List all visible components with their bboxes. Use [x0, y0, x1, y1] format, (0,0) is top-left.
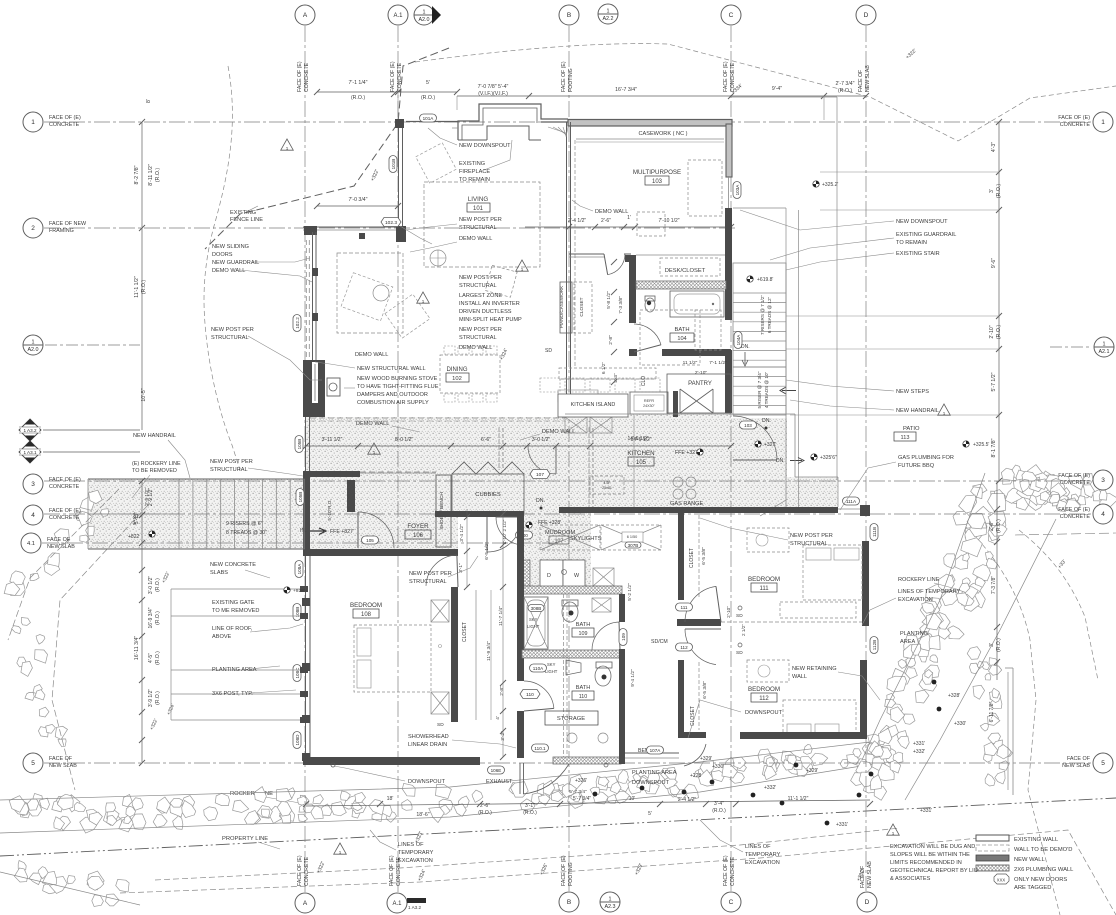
- svg-text:DRIVEN DUCTLESS: DRIVEN DUCTLESS: [459, 309, 512, 315]
- svg-text:STRUCTURAL: STRUCTURAL: [211, 335, 249, 341]
- svg-text:3'-1": 3'-1": [525, 803, 535, 809]
- legend door tag: [994, 874, 1009, 884]
- svg-text:(R.O.): (R.O.): [155, 611, 161, 625]
- svg-text:CLOSET: CLOSET: [579, 297, 585, 316]
- detail ref 1/A2.1 right: [1094, 337, 1114, 357]
- foyer top wall: [304, 471, 360, 477]
- svg-text:BATH: BATH: [674, 327, 689, 333]
- svg-text:8'-0 1/2": 8'-0 1/2": [395, 437, 414, 443]
- grid bubble C top: [721, 5, 741, 25]
- svg-text:4 TREADS @ 10": 4 TREADS @ 10": [764, 371, 769, 408]
- south wall storage hatch: [553, 757, 621, 764]
- grid bubble A bottom: [295, 893, 315, 913]
- svg-text:6 1/2": 6 1/2": [601, 362, 606, 374]
- svg-text:STRUCTURAL: STRUCTURAL: [459, 225, 497, 231]
- svg-text:6 1/50: 6 1/50: [627, 535, 638, 539]
- svg-text:(R.O.): (R.O.): [996, 184, 1002, 198]
- svg-text:1: 1: [892, 831, 895, 836]
- svg-text:PLANTING AREA: PLANTING AREA: [212, 667, 257, 673]
- svg-text:109: 109: [579, 631, 588, 637]
- svg-text:DEMO WALL: DEMO WALL: [356, 421, 389, 427]
- svg-text:111B: 111B: [872, 527, 877, 537]
- svg-text:FFE +327': FFE +327': [675, 450, 699, 456]
- svg-text:102: 102: [452, 376, 462, 382]
- pantry doors X: [680, 389, 713, 413]
- bath110 toilet: [595, 666, 611, 686]
- svg-text:FACE OF (E): FACE OF (E): [561, 855, 567, 886]
- svg-text:C: C: [729, 899, 734, 906]
- svg-text:TO REMAIN: TO REMAIN: [459, 177, 490, 183]
- svg-text:2'-10": 2'-10": [695, 370, 708, 376]
- svg-text:108D: 108D: [295, 734, 300, 746]
- piano casework: [560, 282, 572, 333]
- svg-text:TO HAVE TIGHT-FITTING FLUE: TO HAVE TIGHT-FITTING FLUE: [357, 384, 439, 390]
- svg-text:NEW SLIDING: NEW SLIDING: [212, 244, 249, 250]
- svg-text:CUBBIES: CUBBIES: [475, 492, 501, 498]
- svg-text:EXISTING: EXISTING: [230, 210, 256, 216]
- grid bubble 3 right: [1093, 470, 1113, 490]
- svg-text:5': 5': [648, 811, 652, 817]
- svg-text:CLO: CLO: [641, 376, 647, 386]
- svg-text:XXX: XXX: [997, 878, 1006, 883]
- svg-text:+332': +332': [913, 749, 925, 755]
- svg-text:2'-6": 2'-6": [480, 803, 490, 809]
- fixtures circles: [567, 733, 577, 743]
- dimension line top: [317, 91, 457, 93]
- dimension column left upper: [141, 122, 143, 228]
- svg-text:110A: 110A: [533, 666, 544, 671]
- svg-text:NEW DOWNSPOUT: NEW DOWNSPOUT: [459, 143, 511, 149]
- stove structural wall: [303, 360, 325, 417]
- svg-text:3'-0 1/2": 3'-0 1/2": [532, 437, 551, 443]
- svg-text:NEW DOWNSPOUT: NEW DOWNSPOUT: [896, 219, 948, 225]
- grid line D: [865, 26, 867, 891]
- svg-text:SHOWERHEAD: SHOWERHEAD: [408, 734, 449, 740]
- svg-text:7'-0 3/4": 7'-0 3/4": [349, 197, 368, 203]
- svg-text:B: B: [567, 12, 571, 19]
- svg-text:101B: 101B: [391, 159, 396, 170]
- svg-text:(R.O.): (R.O.): [996, 325, 1002, 339]
- svg-text:LIGHT: LIGHT: [545, 669, 558, 674]
- svg-text:D: D: [547, 573, 551, 579]
- bath109 tub with skylight: [524, 597, 548, 649]
- svg-text:(R.O.): (R.O.): [155, 168, 161, 182]
- washer dryer: [522, 560, 530, 588]
- svg-text:NEW SLAB: NEW SLAB: [867, 861, 873, 888]
- svg-text:6'-11 7/8": 6'-11 7/8": [989, 701, 995, 722]
- svg-text:CLOSET: CLOSET: [689, 548, 695, 568]
- svg-text:A2.0: A2.0: [418, 17, 429, 23]
- svg-text:8'-1 7/8": 8'-1 7/8": [991, 438, 997, 457]
- svg-text:NEW SLAB: NEW SLAB: [1062, 763, 1090, 769]
- svg-text:FUTURE BBQ: FUTURE BBQ: [898, 463, 935, 469]
- svg-text:LINES OF: LINES OF: [398, 842, 424, 848]
- svg-text:2'-8": 2'-8": [608, 335, 614, 345]
- svg-text:FACE OF: FACE OF: [49, 756, 73, 762]
- svg-text:A.1: A.1: [393, 13, 403, 19]
- svg-text:9'-4": 9'-4": [772, 86, 782, 92]
- svg-text:7'-1 1/4": 7'-1 1/4": [349, 80, 368, 86]
- svg-text:ARE TAGGED: ARE TAGGED: [1014, 885, 1051, 891]
- svg-text:111A: 111A: [846, 499, 857, 504]
- grid bubble C bottom: [721, 892, 741, 912]
- svg-text:FACE OF (E): FACE OF (E): [49, 477, 81, 483]
- svg-text:TO ME REMOVED: TO ME REMOVED: [212, 608, 259, 614]
- svg-text:EXHAUST: EXHAUST: [486, 779, 513, 785]
- grid bubble 1 right: [1093, 112, 1113, 132]
- foyer interior wall stub: [347, 480, 355, 512]
- legend demo wall: [976, 845, 1009, 851]
- dimension column right: [998, 122, 1000, 481]
- svg-text:FACE OF (E): FACE OF (E): [1058, 115, 1090, 121]
- grid line C: [730, 26, 732, 891]
- bench: [625, 752, 679, 754]
- bedroom108 bed: [354, 625, 431, 692]
- svg-text:4'-3": 4'-3": [991, 142, 997, 152]
- svg-text:ONLY NEW DOORS: ONLY NEW DOORS: [1014, 877, 1067, 883]
- svg-text:LIGHT: LIGHT: [527, 624, 540, 629]
- svg-text:FACE OF: FACE OF: [860, 866, 866, 888]
- svg-text:3'-9 1/2": 3'-9 1/2": [148, 689, 154, 708]
- svg-text:108: 108: [361, 612, 372, 618]
- grid bubble 2 left: [23, 218, 43, 238]
- svg-text:CONCRETE: CONCRETE: [1060, 480, 1091, 486]
- post A.1 x grid1: [395, 119, 404, 128]
- svg-text:EXCAVATION: EXCAVATION: [898, 597, 933, 603]
- svg-text:DOWNSPOUT: DOWNSPOUT: [632, 780, 670, 786]
- svg-text:LINE OF ROOF,: LINE OF ROOF,: [212, 626, 253, 632]
- svg-text:FRAMING: FRAMING: [49, 228, 74, 234]
- svg-text:111: 111: [681, 605, 688, 610]
- svg-text:+330': +330': [712, 764, 724, 770]
- svg-text:NEW WALL: NEW WALL: [1014, 857, 1045, 863]
- stair walk edges left: [87, 479, 89, 549]
- svg-text:EXCAVATION WILL BE DUG AND: EXCAVATION WILL BE DUG AND: [890, 844, 975, 850]
- svg-text:105: 105: [366, 538, 374, 543]
- svg-text:2'-8": 2'-8": [499, 686, 505, 696]
- closet108 wall: [451, 587, 458, 722]
- svg-text:CASEWORK ( NC ): CASEWORK ( NC ): [638, 131, 687, 137]
- rockery bottom band: [287, 788, 295, 798]
- grid bubble B top: [559, 5, 579, 25]
- svg-text:FACE OF (E): FACE OF (E): [723, 61, 729, 92]
- svg-text:MINI-SPLIT HEAT PUMP: MINI-SPLIT HEAT PUMP: [459, 317, 522, 323]
- svg-text:DEMO WALL: DEMO WALL: [542, 429, 575, 435]
- svg-text:FACE OF (E): FACE OF (E): [389, 855, 395, 886]
- svg-text:NEW GUARDRAIL: NEW GUARDRAIL: [212, 260, 259, 266]
- new wall C mid: [725, 208, 732, 320]
- svg-text:3'-4 1/2": 3'-4 1/2": [459, 524, 465, 542]
- svg-text:CONCRETE: CONCRETE: [397, 62, 403, 92]
- svg-text:A: A: [303, 900, 308, 907]
- svg-text:NEW CONCRETE: NEW CONCRETE: [210, 562, 256, 568]
- svg-text:CONCRETE: CONCRETE: [49, 515, 80, 521]
- svg-text:6'-5 3/8": 6'-5 3/8": [702, 681, 708, 699]
- svg-text:GEOTECHNICAL REPORT BY LIU: GEOTECHNICAL REPORT BY LIU: [890, 868, 978, 874]
- svg-text:5'-7 3/4": 5'-7 3/4": [573, 796, 592, 802]
- svg-text:MULTIPURPOSE: MULTIPURPOSE: [633, 169, 681, 176]
- svg-text:FACE OF (E): FACE OF (E): [1058, 507, 1090, 513]
- svg-text:CONCRETE: CONCRETE: [49, 122, 80, 128]
- grid bubble A.1 top: [388, 5, 408, 25]
- rockery top right corner: [1016, 470, 1031, 486]
- svg-text:102.2: 102.2: [295, 317, 300, 329]
- svg-text:+822: +822: [128, 534, 139, 540]
- svg-text:EXISTING GATE: EXISTING GATE: [212, 600, 255, 606]
- svg-text:DOWNSPOUT: DOWNSPOUT: [745, 710, 783, 716]
- grid line 2: [44, 227, 735, 229]
- multipurpose north wall: [568, 120, 732, 127]
- svg-text:5'-8 1/2": 5'-8 1/2": [606, 291, 612, 309]
- svg-text:3: 3: [31, 481, 35, 488]
- detail ref 1/A2.0 left: [23, 335, 43, 355]
- svg-text:& ASSOCIATES: & ASSOCIATES: [890, 876, 931, 882]
- svg-text:103: 103: [744, 423, 752, 428]
- svg-text:DN.: DN.: [762, 418, 771, 424]
- svg-text:EXCAVATION: EXCAVATION: [398, 858, 433, 864]
- svg-text:4.1: 4.1: [27, 541, 35, 547]
- svg-text:CONCRETE: CONCRETE: [730, 856, 736, 886]
- svg-text:NEW WOOD BURNING STOVE: NEW WOOD BURNING STOVE: [357, 376, 438, 382]
- skylights x-boxes: [540, 525, 600, 550]
- svg-text:DN.: DN.: [741, 344, 750, 350]
- post A x grid2: [304, 226, 317, 235]
- svg-text:NEW POST PER: NEW POST PER: [211, 327, 254, 333]
- west wall below stove: [305, 417, 307, 471]
- svg-text:NEW SLAB: NEW SLAB: [865, 65, 871, 92]
- svg-text:ROCKERY LINE: ROCKERY LINE: [898, 577, 940, 583]
- oval 101A: [420, 114, 437, 122]
- svg-text:3'-1": 3'-1": [458, 563, 464, 573]
- bedroom111 east wall: [862, 541, 869, 626]
- grid bubble 4 right: [1093, 504, 1113, 524]
- svg-text:ABOVE: ABOVE: [212, 634, 232, 640]
- svg-text:BEDROOM: BEDROOM: [748, 686, 780, 693]
- bath wall west: [517, 513, 524, 681]
- svg-text:TO BE REMOVED: TO BE REMOVED: [132, 468, 177, 474]
- grid bubble 5 right: [1093, 753, 1113, 773]
- divider 109/110 plumbing: [522, 650, 621, 658]
- svg-text:NEW RETAINING: NEW RETAINING: [792, 666, 837, 672]
- svg-text:FOYER: FOYER: [407, 523, 429, 530]
- svg-text:(R.O.): (R.O.): [155, 578, 161, 592]
- svg-text:4.5F: 4.5F: [603, 481, 611, 485]
- svg-text:FACE OF (E): FACE OF (E): [49, 115, 81, 121]
- svg-text:DN.: DN.: [776, 458, 785, 464]
- grid bubble A top: [295, 5, 315, 25]
- svg-text:1: 1: [286, 146, 289, 151]
- svg-text:4: 4: [1101, 511, 1105, 518]
- svg-text:STRUCTURAL: STRUCTURAL: [790, 541, 828, 547]
- detail ref 1/A2.3 bottom: [600, 892, 620, 912]
- svg-text:25x81: 25x81: [602, 486, 612, 490]
- bath109 skylight box: [592, 598, 611, 612]
- grid line A.1: [397, 26, 399, 892]
- svg-text:1: 1: [607, 9, 610, 15]
- svg-text:LIVING: LIVING: [468, 196, 488, 203]
- svg-text:TEMPORARY: TEMPORARY: [398, 850, 434, 856]
- svg-text:16'-9 3/4": 16'-9 3/4": [148, 607, 154, 628]
- legend plumbing wall: [976, 865, 1009, 871]
- svg-text:FFE +827': FFE +827': [330, 529, 354, 535]
- svg-text:110: 110: [579, 694, 588, 700]
- svg-text:LIMITS RECOMMENDED IN: LIMITS RECOMMENDED IN: [890, 860, 962, 866]
- svg-text:1 A3.2: 1 A3.2: [408, 905, 421, 910]
- svg-text:+326': +326': [575, 778, 587, 784]
- svg-text:11'-1 1/2": 11'-1 1/2": [788, 796, 809, 802]
- svg-text:SD: SD: [545, 348, 552, 354]
- grid bubble D top: [856, 5, 876, 25]
- svg-text:DEMO WALL: DEMO WALL: [212, 268, 245, 274]
- svg-text:(R.O.): (R.O.): [996, 638, 1002, 652]
- svg-text:NEW POST PER: NEW POST PER: [409, 571, 452, 577]
- svg-text:5 RISER @ 7 3/4": 5 RISER @ 7 3/4": [757, 371, 762, 408]
- svg-text:3X6 POST, TYP.: 3X6 POST, TYP.: [212, 691, 253, 697]
- bedroom111 desk: [747, 528, 789, 552]
- svg-text:AREA: AREA: [900, 639, 916, 645]
- dimension line bottom: [306, 800, 870, 806]
- svg-text:DEMO WALL: DEMO WALL: [459, 236, 492, 242]
- grid line 1: [44, 121, 1092, 123]
- svg-text:1 A3.1: 1 A3.1: [23, 450, 36, 455]
- bath104 south wall: [629, 349, 637, 356]
- kitchen appliance dashes: [540, 378, 560, 392]
- svg-text:+329': +329': [806, 768, 818, 774]
- svg-text:GAS RANGE: GAS RANGE: [670, 501, 704, 507]
- svg-text:+329': +329': [700, 756, 712, 762]
- svg-text:+332': +332': [764, 785, 776, 791]
- rockery survey dots: [593, 792, 598, 797]
- svg-text:DOORS: DOORS: [212, 252, 233, 258]
- desk closet door: [608, 254, 625, 275]
- svg-text:3': 3': [989, 189, 995, 193]
- svg-text:BATH: BATH: [576, 622, 591, 628]
- svg-text:SLOPES WILL BE WITHIN THE: SLOPES WILL BE WITHIN THE: [890, 852, 970, 858]
- svg-text:8': 8': [146, 99, 152, 103]
- svg-text:106E: 106E: [491, 768, 502, 773]
- svg-text:7 RISERS @ 7 1/2": 7 RISERS @ 7 1/2": [760, 295, 765, 335]
- svg-text:KITCHEN ISLAND: KITCHEN ISLAND: [571, 402, 616, 408]
- svg-text:BEDROOM: BEDROOM: [350, 602, 382, 609]
- svg-text:+327': +327': [764, 442, 776, 448]
- grid bubble 4 left: [23, 505, 43, 525]
- svg-text:BEDROOM: BEDROOM: [748, 576, 780, 583]
- bedroom108 south wall: [303, 757, 480, 765]
- shoes bench: [436, 475, 451, 547]
- grid line 4: [44, 513, 1092, 515]
- grid line A: [304, 26, 306, 892]
- svg-text:COMBUSTION AIR SUPPLY: COMBUSTION AIR SUPPLY: [357, 400, 429, 406]
- svg-text:2: 2: [31, 225, 35, 232]
- svg-text:PATIO: PATIO: [903, 426, 920, 432]
- elevation marker 1/A3.2: [19, 419, 41, 441]
- doors 111/112: [685, 586, 716, 622]
- svg-text:5'-11": 5'-11": [132, 513, 138, 525]
- svg-text:11'-1 1/2": 11'-1 1/2": [134, 276, 140, 298]
- detail ref 1/A2.2: [598, 4, 618, 24]
- svg-text:14'-6 1/2": 14'-6 1/2": [627, 436, 648, 442]
- cubby door arcs: [487, 517, 522, 552]
- svg-text:1: 1: [32, 340, 35, 346]
- kitchen north edge: [565, 413, 731, 415]
- svg-text:A2.0: A2.0: [27, 347, 38, 353]
- svg-text:TEMPORARY: TEMPORARY: [745, 852, 781, 858]
- demo wall corridor dashed: [310, 417, 565, 419]
- grid bubble 5 left: [23, 753, 43, 773]
- svg-text:+331': +331': [836, 822, 848, 828]
- grid bubble 3 left: [23, 474, 43, 494]
- svg-text:FENCE LINE: FENCE LINE: [230, 217, 263, 223]
- svg-text:D: D: [865, 899, 870, 906]
- svg-text:2'-6": 2'-6": [601, 218, 611, 224]
- svg-text:8'-11 1/2": 8'-11 1/2": [148, 164, 154, 186]
- svg-text:112: 112: [759, 696, 769, 702]
- grid line B: [568, 26, 570, 891]
- svg-text:1 A3.2: 1 A3.2: [23, 428, 36, 433]
- svg-text:NEW STRUCTURAL WALL: NEW STRUCTURAL WALL: [357, 366, 426, 372]
- svg-text:DEMO WALL: DEMO WALL: [355, 352, 388, 358]
- gas range wall (new): [559, 507, 838, 513]
- svg-text:A2.3: A2.3: [604, 904, 615, 910]
- contour line top: [415, 44, 1116, 141]
- bedroom112 bed: [783, 700, 856, 738]
- mudroom west wall: [517, 513, 524, 567]
- dim string hall y446: [306, 445, 731, 447]
- svg-text:IN.: IN.: [300, 528, 307, 534]
- svg-text:STORAGE: STORAGE: [557, 716, 585, 722]
- svg-text:+331': +331': [920, 808, 932, 814]
- svg-text:INSTALL AN INVERTER: INSTALL AN INVERTER: [459, 301, 520, 307]
- grid bubble 4.1 left: [21, 533, 41, 553]
- svg-text:1: 1: [1103, 342, 1106, 348]
- svg-text:4: 4: [31, 512, 35, 519]
- svg-text:STRUCTURAL: STRUCTURAL: [409, 579, 447, 585]
- grid bubble D bottom: [857, 892, 877, 912]
- svg-text:109: 109: [621, 633, 626, 641]
- svg-text:(V.I.F.)(V.I.F.): (V.I.F.)(V.I.F.): [478, 91, 508, 97]
- rockery bottom-left corner: [106, 894, 120, 906]
- svg-text:FACE OF: FACE OF: [1067, 756, 1091, 762]
- closet112 wall: [678, 660, 684, 738]
- svg-text:REFR: REFR: [644, 399, 655, 403]
- divider wall 111/112: [677, 619, 721, 626]
- svg-text:CLOSET: CLOSET: [462, 622, 468, 642]
- elevation marker 1/A3.1: [19, 441, 41, 463]
- svg-text:SD: SD: [736, 613, 743, 619]
- svg-text:1: 1: [609, 897, 612, 903]
- wall B double (existing): [566, 122, 568, 414]
- svg-text:7'-1 1/2": 7'-1 1/2": [709, 360, 727, 366]
- svg-text:SLABS: SLABS: [210, 570, 228, 576]
- grid line 3: [44, 480, 1092, 482]
- svg-text:1: 1: [943, 411, 946, 416]
- svg-text:2'-10": 2'-10": [989, 325, 995, 338]
- stair side walls: [785, 263, 787, 508]
- living north wall: [541, 121, 568, 123]
- svg-text:3: 3: [1101, 477, 1105, 484]
- svg-text:1': 1': [627, 215, 631, 221]
- svg-text:105B: 105B: [297, 439, 302, 450]
- svg-text:3'-11 1/2": 3'-11 1/2": [322, 437, 343, 443]
- svg-text:FOOTING: FOOTING: [568, 862, 574, 886]
- svg-text:6'-6": 6'-6": [481, 437, 491, 443]
- section marker 1/A2.0 top: [414, 5, 434, 25]
- svg-text:CONCRETE: CONCRETE: [304, 856, 310, 886]
- svg-text:PROPERTY LINE: PROPERTY LINE: [222, 836, 268, 842]
- svg-text:SD/CM: SD/CM: [651, 639, 668, 645]
- svg-text:2 1/2": 2 1/2": [741, 624, 746, 636]
- svg-text:+928': +928': [293, 588, 305, 594]
